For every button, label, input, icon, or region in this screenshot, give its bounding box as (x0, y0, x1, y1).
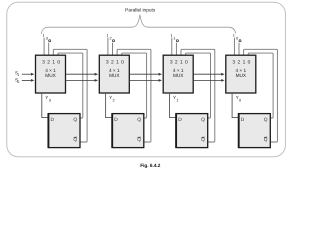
svg-text:Q: Q (201, 117, 205, 122)
svg-text:Q: Q (137, 137, 141, 142)
svg-text:1: 1 (173, 36, 175, 40)
svg-text:0: 0 (239, 98, 241, 102)
svg-text:Q: Q (201, 137, 205, 142)
svg-text:I: I (233, 33, 234, 38)
svg-text:Y: Y (173, 95, 176, 100)
svg-text:3 2 1 0: 3 2 1 0 (170, 59, 188, 64)
svg-text:MUX: MUX (236, 73, 246, 78)
svg-text:MUX: MUX (45, 73, 55, 78)
svg-text:1: 1 (17, 73, 19, 77)
svg-text:D: D (241, 117, 244, 122)
svg-text:1: 1 (176, 98, 178, 102)
svg-text:3 2 1 0: 3 2 1 0 (106, 59, 124, 64)
svg-text:Y: Y (45, 95, 48, 100)
svg-text:D: D (178, 117, 181, 122)
svg-text:I: I (107, 33, 108, 38)
svg-text:2: 2 (110, 36, 112, 40)
svg-text:Y: Y (236, 95, 239, 100)
svg-text:0: 0 (17, 80, 19, 84)
svg-text:MUX: MUX (173, 73, 183, 78)
svg-text:4 × 1: 4 × 1 (236, 68, 247, 73)
svg-text:I: I (43, 33, 44, 38)
svg-text:I: I (171, 33, 172, 38)
svg-text:D: D (51, 117, 54, 122)
svg-text:0: 0 (236, 36, 238, 40)
svg-text:Q: Q (73, 137, 77, 142)
svg-text:3: 3 (49, 98, 51, 102)
svg-text:4 × 1: 4 × 1 (173, 68, 184, 73)
svg-text:3: 3 (46, 36, 48, 40)
svg-text:Fig. 6.4.2: Fig. 6.4.2 (140, 163, 160, 168)
svg-text:Q: Q (137, 117, 141, 122)
svg-text:D: D (114, 117, 117, 122)
svg-text:Q: Q (264, 137, 268, 142)
svg-text:Parallel inputs: Parallel inputs (125, 7, 155, 12)
svg-text:4 × 1: 4 × 1 (45, 68, 56, 73)
svg-text:4 × 1: 4 × 1 (109, 68, 120, 73)
svg-text:3 2 1 0: 3 2 1 0 (42, 59, 60, 64)
svg-text:Q: Q (264, 117, 268, 122)
svg-text:MUX: MUX (109, 73, 119, 78)
svg-text:3 2 1 0: 3 2 1 0 (232, 59, 250, 64)
svg-text:2: 2 (113, 98, 115, 102)
svg-text:Q: Q (73, 117, 77, 122)
svg-text:Y: Y (109, 95, 112, 100)
